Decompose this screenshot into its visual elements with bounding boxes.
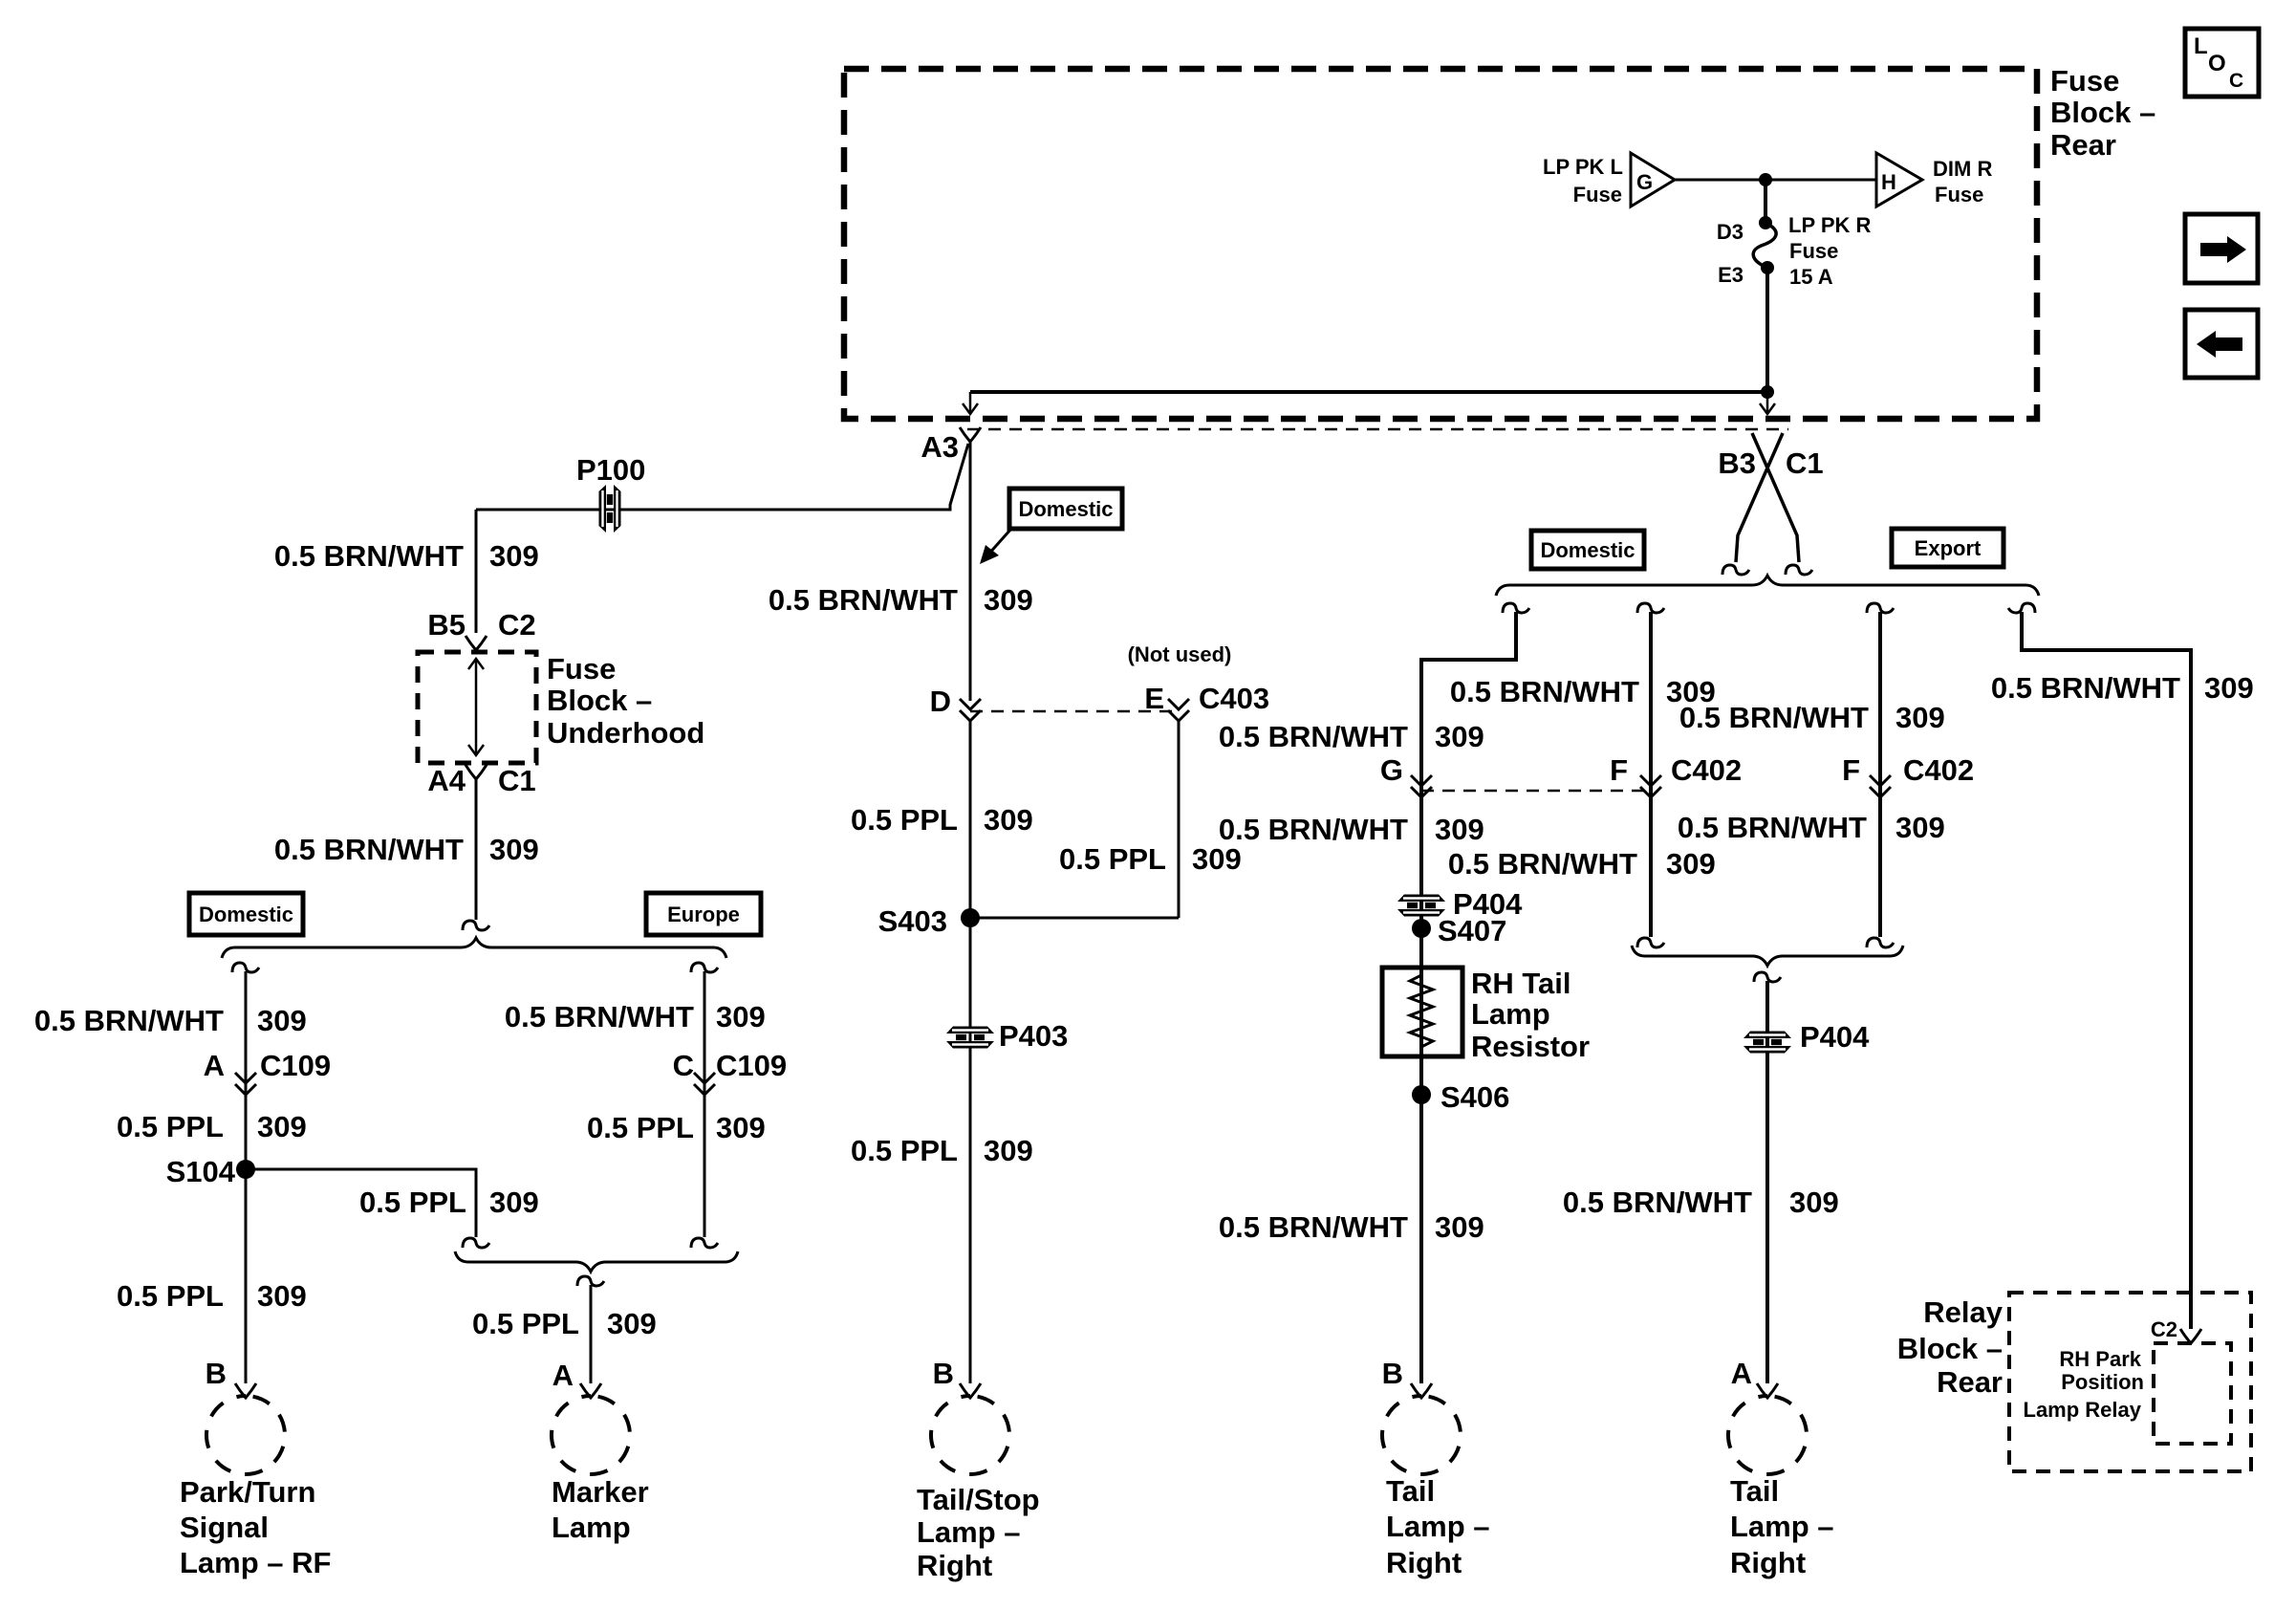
- svg-text:Tail: Tail: [1386, 1474, 1435, 1508]
- svg-text:G: G: [1636, 170, 1653, 194]
- svg-text:0.5 BRN/WHT: 0.5 BRN/WHT: [1991, 671, 2180, 705]
- svg-text:S403: S403: [878, 904, 947, 938]
- svg-text:Lamp – RF: Lamp – RF: [180, 1546, 331, 1579]
- svg-text:309: 309: [1435, 720, 1484, 753]
- svg-text:309: 309: [716, 1000, 766, 1033]
- svg-text:Lamp –: Lamp –: [917, 1515, 1021, 1549]
- svg-text:0.5 PPL: 0.5 PPL: [587, 1111, 694, 1144]
- svg-text:Fuse: Fuse: [1789, 239, 1838, 263]
- svg-text:(Not used): (Not used): [1128, 642, 1232, 666]
- svg-text:P100: P100: [576, 453, 645, 487]
- svg-text:309: 309: [1895, 811, 1945, 844]
- svg-text:Tail/Stop: Tail/Stop: [917, 1483, 1040, 1516]
- svg-text:D: D: [930, 685, 951, 718]
- svg-text:C2: C2: [498, 608, 536, 642]
- svg-text:0.5 PPL: 0.5 PPL: [359, 1186, 466, 1219]
- svg-text:0.5 BRN/WHT: 0.5 BRN/WHT: [274, 539, 464, 573]
- svg-text:G: G: [1380, 753, 1403, 787]
- svg-text:15 A: 15 A: [1789, 265, 1833, 289]
- svg-text:A3: A3: [921, 430, 959, 464]
- svg-text:C402: C402: [1903, 753, 1974, 787]
- svg-text:C109: C109: [716, 1049, 787, 1082]
- svg-text:309: 309: [984, 803, 1033, 837]
- svg-text:S406: S406: [1440, 1080, 1509, 1114]
- svg-text:DIM R: DIM R: [1933, 157, 1992, 181]
- svg-text:Tail: Tail: [1730, 1474, 1779, 1508]
- svg-text:0.5 BRN/WHT: 0.5 BRN/WHT: [505, 1000, 694, 1033]
- svg-text:309: 309: [1192, 842, 1242, 876]
- svg-text:F: F: [1842, 753, 1860, 787]
- svg-text:Rear: Rear: [1937, 1365, 2003, 1399]
- svg-text:C2: C2: [2151, 1317, 2177, 1341]
- svg-text:P403: P403: [999, 1019, 1068, 1053]
- svg-text:A: A: [1731, 1357, 1752, 1390]
- svg-text:Domestic: Domestic: [199, 903, 293, 926]
- svg-text:0.5 BRN/WHT: 0.5 BRN/WHT: [769, 583, 958, 617]
- svg-text:Rear: Rear: [2050, 128, 2116, 162]
- svg-text:A4: A4: [427, 764, 466, 797]
- svg-text:Block –: Block –: [2050, 96, 2155, 129]
- svg-text:A: A: [204, 1049, 225, 1082]
- svg-text:B5: B5: [427, 608, 466, 642]
- svg-text:309: 309: [984, 1134, 1033, 1167]
- svg-text:Underhood: Underhood: [547, 716, 704, 750]
- svg-text:309: 309: [2204, 671, 2254, 705]
- svg-text:P404: P404: [1800, 1020, 1870, 1054]
- svg-text:Lamp: Lamp: [1471, 997, 1550, 1031]
- svg-text:0.5 BRN/WHT: 0.5 BRN/WHT: [34, 1004, 224, 1037]
- svg-text:Export: Export: [1915, 536, 1982, 560]
- svg-text:C1: C1: [1786, 446, 1824, 480]
- svg-text:C1: C1: [498, 764, 536, 797]
- svg-text:B: B: [933, 1357, 954, 1390]
- svg-text:LP PK L: LP PK L: [1543, 155, 1623, 179]
- svg-text:F: F: [1610, 753, 1628, 787]
- svg-text:O: O: [2208, 51, 2226, 76]
- svg-text:Relay: Relay: [1923, 1295, 2003, 1329]
- svg-text:309: 309: [257, 1110, 307, 1143]
- svg-text:C: C: [2229, 70, 2243, 92]
- svg-text:S407: S407: [1438, 914, 1506, 947]
- svg-text:0.5 BRN/WHT: 0.5 BRN/WHT: [1219, 720, 1408, 753]
- svg-text:0.5 PPL: 0.5 PPL: [117, 1110, 224, 1143]
- svg-text:A: A: [552, 1359, 574, 1392]
- svg-text:309: 309: [1435, 1210, 1484, 1244]
- svg-text:0.5 PPL: 0.5 PPL: [851, 803, 958, 837]
- svg-text:309: 309: [1789, 1186, 1839, 1219]
- svg-text:0.5 BRN/WHT: 0.5 BRN/WHT: [274, 833, 464, 866]
- svg-text:C: C: [673, 1049, 694, 1082]
- svg-text:Domestic: Domestic: [1018, 497, 1113, 521]
- svg-text:B3: B3: [1718, 446, 1756, 480]
- svg-text:0.5 BRN/WHT: 0.5 BRN/WHT: [1563, 1186, 1752, 1219]
- svg-text:RH Park: RH Park: [2059, 1347, 2141, 1371]
- svg-text:0.5 PPL: 0.5 PPL: [851, 1134, 958, 1167]
- svg-text:309: 309: [607, 1307, 657, 1340]
- svg-text:0.5 BRN/WHT: 0.5 BRN/WHT: [1678, 811, 1867, 844]
- svg-text:0.5 BRN/WHT: 0.5 BRN/WHT: [1219, 813, 1408, 846]
- svg-text:Fuse: Fuse: [2050, 64, 2119, 98]
- svg-text:B: B: [206, 1357, 227, 1390]
- svg-text:C109: C109: [260, 1049, 331, 1082]
- svg-text:Fuse: Fuse: [1573, 183, 1622, 207]
- svg-text:S104: S104: [166, 1155, 236, 1188]
- svg-text:Domestic: Domestic: [1540, 538, 1635, 562]
- svg-text:0.5 PPL: 0.5 PPL: [117, 1279, 224, 1313]
- svg-text:B: B: [1382, 1357, 1403, 1390]
- svg-text:309: 309: [489, 539, 539, 573]
- svg-text:309: 309: [1895, 701, 1945, 734]
- svg-text:309: 309: [257, 1004, 307, 1037]
- svg-text:Fuse: Fuse: [1935, 183, 1983, 207]
- svg-text:309: 309: [1435, 813, 1484, 846]
- svg-text:309: 309: [716, 1111, 766, 1144]
- svg-text:Marker: Marker: [552, 1475, 649, 1509]
- svg-text:E3: E3: [1718, 263, 1744, 287]
- svg-text:0.5 BRN/WHT: 0.5 BRN/WHT: [1448, 847, 1637, 881]
- svg-text:Park/Turn: Park/Turn: [180, 1475, 315, 1509]
- svg-text:Europe: Europe: [667, 903, 740, 926]
- svg-text:LP PK R: LP PK R: [1788, 213, 1872, 237]
- svg-text:Right: Right: [917, 1549, 992, 1582]
- svg-text:Lamp –: Lamp –: [1730, 1510, 1834, 1543]
- svg-text:Lamp: Lamp: [552, 1511, 631, 1544]
- svg-text:C403: C403: [1199, 682, 1269, 715]
- svg-text:Resistor: Resistor: [1471, 1030, 1590, 1063]
- svg-text:309: 309: [489, 1186, 539, 1219]
- svg-text:309: 309: [984, 583, 1033, 617]
- svg-text:309: 309: [489, 833, 539, 866]
- svg-text:309: 309: [1666, 847, 1716, 881]
- svg-text:0.5 PPL: 0.5 PPL: [472, 1307, 579, 1340]
- svg-text:RH Tail: RH Tail: [1471, 967, 1571, 1000]
- svg-text:0.5 PPL: 0.5 PPL: [1059, 842, 1166, 876]
- svg-text:0.5 BRN/WHT: 0.5 BRN/WHT: [1450, 675, 1639, 708]
- svg-text:Signal: Signal: [180, 1511, 269, 1544]
- svg-text:H: H: [1881, 170, 1896, 194]
- svg-text:Lamp –: Lamp –: [1386, 1510, 1490, 1543]
- svg-text:Position: Position: [2061, 1370, 2144, 1394]
- svg-text:309: 309: [257, 1279, 307, 1313]
- svg-text:D3: D3: [1717, 220, 1744, 244]
- svg-text:Block –: Block –: [547, 684, 652, 717]
- svg-text:Block –: Block –: [1897, 1332, 2003, 1365]
- svg-text:C402: C402: [1671, 753, 1742, 787]
- svg-text:Right: Right: [1386, 1546, 1462, 1579]
- svg-text:Right: Right: [1730, 1546, 1806, 1579]
- svg-text:0.5 BRN/WHT: 0.5 BRN/WHT: [1679, 701, 1869, 734]
- svg-text:Lamp Relay: Lamp Relay: [2024, 1398, 2142, 1422]
- svg-text:Fuse: Fuse: [547, 652, 616, 685]
- svg-text:0.5 BRN/WHT: 0.5 BRN/WHT: [1219, 1210, 1408, 1244]
- svg-text:L: L: [2194, 33, 2208, 59]
